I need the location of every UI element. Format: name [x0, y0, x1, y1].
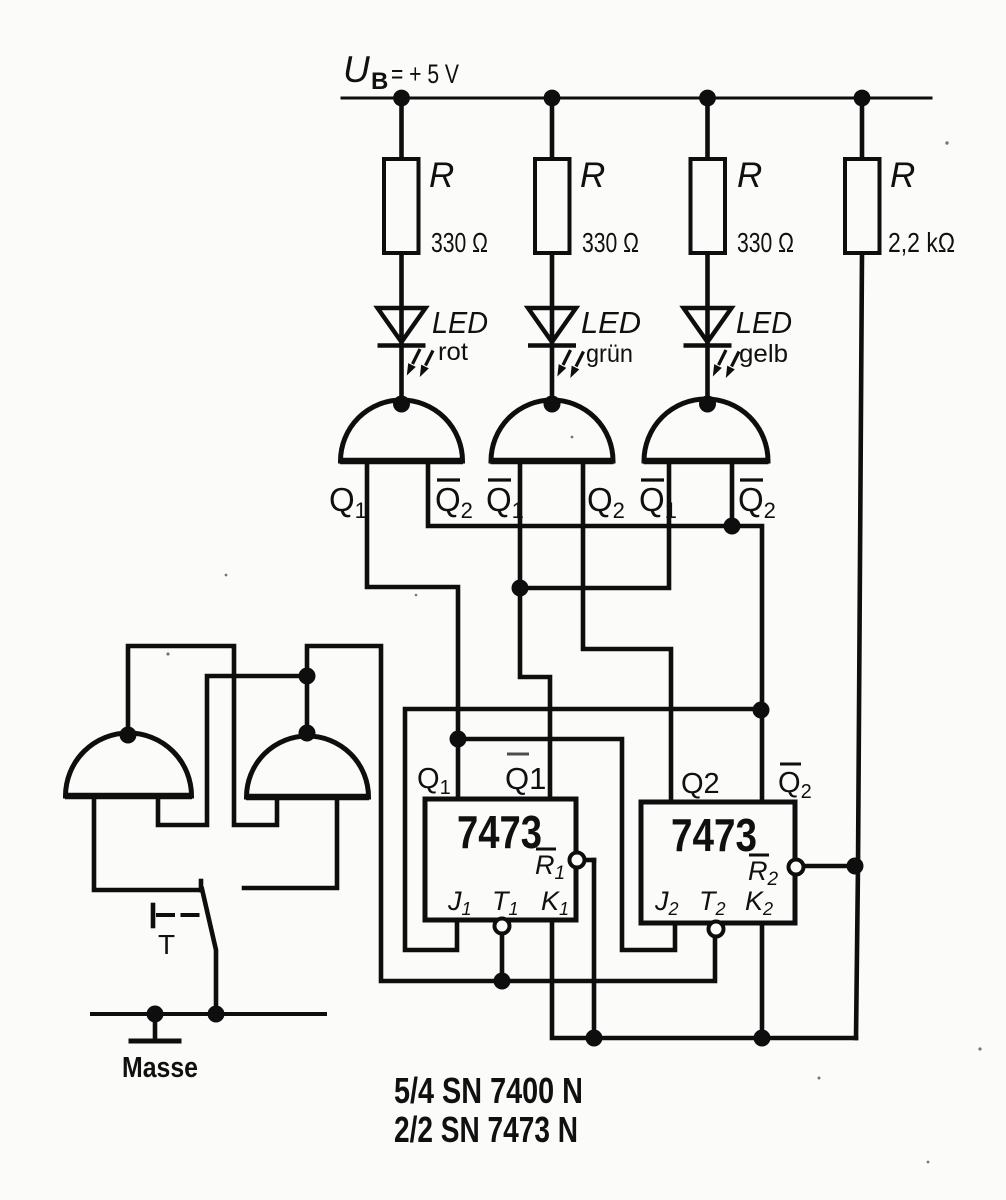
svg-text:Q2: Q2: [681, 768, 720, 800]
svg-text:U: U: [343, 49, 370, 90]
svg-text:5/4 SN 7400 N: 5/4 SN 7400 N: [394, 1070, 583, 1111]
svg-text:T: T: [158, 929, 175, 960]
svg-text:gelb: gelb: [739, 340, 788, 368]
svg-text:LED: LED: [581, 305, 641, 340]
svg-text:7473: 7473: [671, 809, 757, 861]
svg-text:R: R: [429, 156, 454, 195]
svg-text:2,2 kΩ: 2,2 kΩ: [888, 227, 955, 258]
svg-text:= + 5 V: = + 5 V: [391, 59, 459, 89]
svg-text:rot: rot: [438, 338, 468, 366]
svg-text:330 Ω: 330 Ω: [431, 227, 488, 258]
svg-text:R: R: [580, 156, 605, 195]
svg-text:Q1: Q1: [505, 761, 546, 796]
svg-text:7473: 7473: [457, 806, 542, 858]
svg-text:LED: LED: [432, 305, 488, 340]
svg-text:B: B: [371, 68, 388, 95]
svg-text:LED: LED: [736, 305, 792, 340]
svg-text:R: R: [737, 156, 762, 195]
svg-text:330 Ω: 330 Ω: [737, 227, 794, 258]
svg-text:2/2 SN 7473 N: 2/2 SN 7473 N: [394, 1109, 578, 1150]
svg-text:330 Ω: 330 Ω: [582, 227, 639, 258]
svg-text:grün: grün: [586, 340, 633, 368]
svg-text:R: R: [890, 156, 915, 195]
svg-text:Masse: Masse: [122, 1052, 198, 1084]
